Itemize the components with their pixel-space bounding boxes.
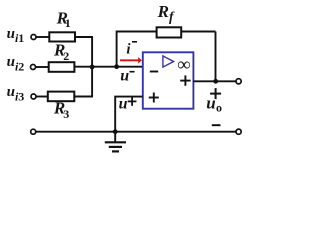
node output junction (213, 79, 218, 84)
svg-text:u: u (120, 68, 129, 85)
op-amp gain triangle (163, 56, 174, 67)
node inverting-input junction (114, 64, 119, 69)
svg-text:2: 2 (63, 49, 69, 63)
wire (181, 31, 215, 33)
ground (114, 132, 116, 143)
node ground junction (113, 129, 118, 134)
op-amp U1 body (143, 52, 194, 108)
wire noninverting input (115, 97, 143, 132)
svg-text:R: R (157, 2, 169, 21)
svg-text:u: u (206, 93, 215, 112)
svg-text:o: o (216, 101, 222, 115)
wire (74, 96, 93, 98)
current arrow red (120, 59, 139, 61)
svg-text:∞: ∞ (177, 55, 191, 76)
wire (74, 66, 142, 68)
resistor R1 (49, 32, 75, 41)
wire (36, 66, 49, 68)
wire summing bus vertical (91, 37, 93, 97)
wire feedback right vertical (215, 32, 217, 82)
op-amp noninverting input plus (149, 97, 159, 99)
op-amp output plus (180, 80, 190, 82)
input terminal ui1 (31, 35, 36, 40)
wire feedback branch up and across (117, 32, 157, 67)
svg-text:u: u (119, 95, 128, 112)
input terminal ui2 (31, 65, 36, 70)
bottom reference terminal left (31, 129, 36, 134)
label uo plus (210, 93, 221, 95)
resistor Rf (157, 27, 182, 37)
wire (36, 36, 49, 38)
output terminal top (236, 79, 241, 84)
output terminal bottom (236, 129, 241, 134)
svg-text:1: 1 (65, 16, 71, 30)
wire bottom rail (36, 131, 236, 133)
input terminal ui3 (31, 94, 36, 99)
node bus-R2 junction (90, 65, 95, 70)
wire (75, 36, 93, 38)
op-amp inverting input minus (150, 71, 158, 73)
resistor R2 (49, 62, 75, 72)
svg-text:3: 3 (63, 107, 69, 121)
wire (36, 96, 48, 98)
wire output (193, 80, 236, 82)
label uo minus (212, 124, 221, 126)
resistor R3 (48, 92, 75, 102)
